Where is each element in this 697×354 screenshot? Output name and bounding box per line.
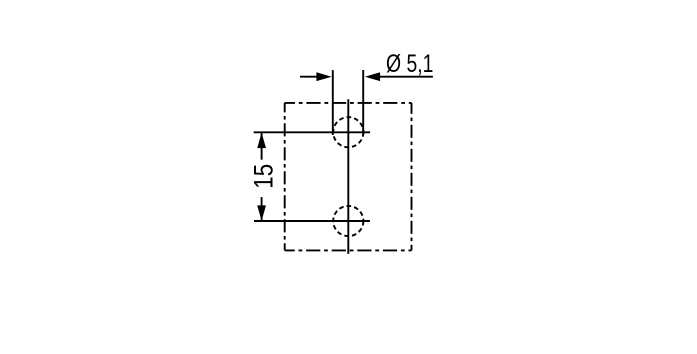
diameter dimension tail line left (300, 76, 317, 78)
center line hole H2 (horizontal) (254, 220, 370, 222)
center line hole H1 (horizontal) (254, 131, 370, 133)
panel outline left edge (dash-dot) (284, 103, 286, 251)
arrowhead up (dimension 15) (257, 133, 266, 149)
panel outline right edge (dash-dot) (411, 103, 413, 251)
hole H1 top (dashed circle) (333, 117, 363, 147)
dimension line 15 lower segment (261, 197, 263, 220)
extension line right tangent hole H1 (362, 70, 364, 135)
arrowhead left (diameter, right) (365, 72, 380, 81)
dimension line 15 upper segment (261, 133, 263, 160)
vertical center line (347, 99, 349, 254)
panel outline top edge (dash-dot) (285, 102, 412, 104)
panel outline bottom edge (dash-dot) (285, 249, 412, 251)
diameter leader line right (380, 76, 433, 78)
arrowhead right (diameter, left) (316, 72, 331, 81)
svg-text:Ø 5,1: Ø 5,1 (386, 50, 433, 78)
hole H2 bottom (dashed circle) (333, 206, 363, 236)
extension line left tangent hole H1 (332, 70, 334, 135)
svg-text:15: 15 (248, 164, 278, 189)
arrowhead down (dimension 15) (257, 205, 266, 221)
